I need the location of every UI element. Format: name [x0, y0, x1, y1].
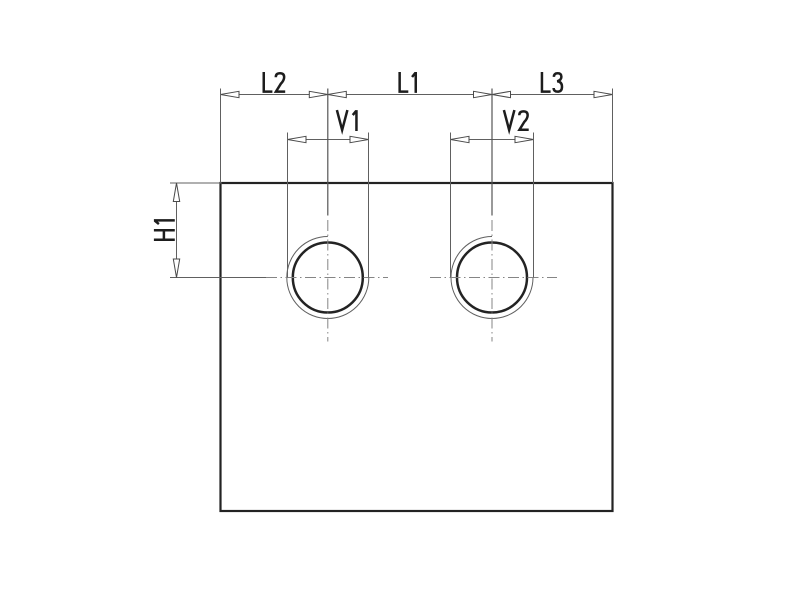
arrow V1 left	[288, 136, 307, 142]
dimension line H1	[176, 183, 178, 278]
label L1	[400, 72, 416, 93]
arrow pair at hole 1 center: L1 start	[328, 91, 347, 97]
arrow V1 right	[350, 136, 369, 142]
top dimension line L2 L1 L3	[221, 94, 613, 96]
arrow V2 left	[451, 136, 470, 142]
label L2	[264, 72, 285, 92]
arrow pair at hole 2 center: L3 start	[492, 91, 511, 97]
label V1	[337, 110, 357, 131]
arrow left end L2	[221, 91, 240, 97]
V1 right extension line	[368, 133, 370, 278]
arrow H1 bottom	[173, 259, 179, 278]
arrow pair at hole 1 center: L2 end	[309, 91, 328, 97]
dimension line V1	[288, 139, 369, 141]
hole 1 center projection line	[327, 89, 329, 216]
hole 2 center projection line	[491, 89, 493, 216]
hole 1 thread arc	[287, 237, 369, 319]
hole 1 horizontal centerline	[266, 277, 388, 279]
hole 2 thread arc	[451, 237, 533, 319]
V2 right extension line	[533, 133, 535, 278]
part outline	[221, 183, 613, 511]
hole 2 bore circle	[457, 243, 527, 313]
V2 left extension line	[450, 133, 452, 278]
hole 2 horizontal centerline	[430, 277, 557, 279]
extension line at left edge	[220, 89, 222, 184]
arrow H1 top	[173, 183, 179, 202]
H1 top extension line	[170, 182, 222, 184]
label V2	[504, 110, 529, 130]
extension line at right edge	[612, 89, 614, 184]
hole 1 vertical centerline	[327, 220, 329, 342]
arrow right end L3	[594, 91, 613, 97]
V1 left extension line	[287, 133, 289, 278]
arrow pair at hole 2 center: L1 end	[474, 91, 493, 97]
H1 bottom extension line	[170, 277, 266, 279]
hole 1 bore circle	[293, 243, 363, 313]
label H1	[154, 220, 175, 239]
arrow V2 right	[515, 136, 534, 142]
dimension line V2	[451, 139, 534, 141]
hole 2 vertical centerline	[491, 220, 493, 342]
label L3	[542, 72, 562, 92]
